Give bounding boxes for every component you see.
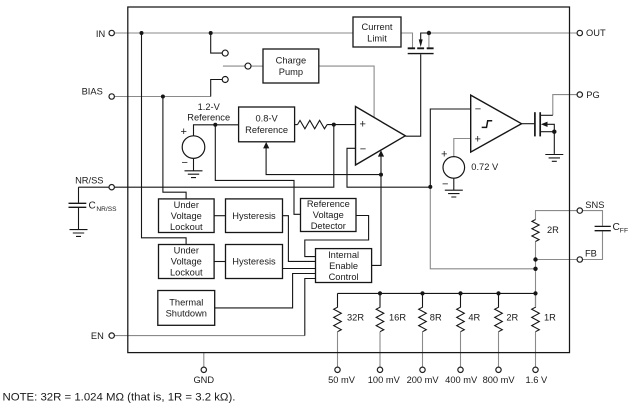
svg-text:IN: IN [96, 29, 105, 39]
svg-text:Lockout: Lockout [170, 222, 203, 232]
svg-text:+: + [475, 134, 481, 146]
svg-text:C: C [613, 222, 620, 233]
svg-text:Reference: Reference [245, 125, 288, 135]
svg-text:Voltage: Voltage [171, 211, 202, 221]
svg-text:8R: 8R [430, 312, 442, 322]
svg-text:Voltage: Voltage [171, 257, 202, 267]
svg-text:NR/SS: NR/SS [75, 176, 103, 186]
svg-text:200 mV: 200 mV [407, 375, 440, 385]
svg-text:32R: 32R [347, 312, 364, 322]
svg-text:Current: Current [361, 22, 392, 32]
svg-text:Shutdown: Shutdown [166, 309, 207, 319]
svg-text:BIAS: BIAS [82, 86, 103, 96]
svg-text:OUT: OUT [586, 28, 606, 38]
svg-text:GND: GND [193, 375, 214, 385]
svg-text:Pump: Pump [279, 67, 303, 77]
svg-text:16R: 16R [389, 312, 406, 322]
svg-text:Control: Control [329, 272, 359, 282]
svg-text:Hysteresis: Hysteresis [232, 257, 276, 267]
svg-text:50 mV: 50 mV [328, 375, 356, 385]
svg-text:Detector: Detector [311, 221, 346, 231]
svg-text:−: − [360, 144, 366, 156]
svg-text:−: − [475, 104, 481, 116]
svg-text:EN: EN [91, 331, 104, 341]
svg-text:+: + [181, 126, 187, 138]
svg-text:PG: PG [586, 90, 599, 100]
svg-text:0.72 V: 0.72 V [471, 162, 499, 172]
svg-text:−: − [182, 157, 188, 169]
svg-text:+: + [360, 119, 366, 131]
svg-text:Under: Under [174, 200, 199, 210]
svg-text:−: − [442, 179, 448, 191]
svg-text:Thermal: Thermal [169, 298, 203, 308]
svg-text:Reference: Reference [187, 112, 230, 122]
svg-text:NR/SS: NR/SS [96, 206, 117, 213]
svg-text:C: C [89, 200, 96, 211]
svg-text:Under: Under [174, 246, 199, 256]
svg-text:SNS: SNS [585, 200, 604, 210]
svg-text:Enable: Enable [329, 261, 358, 271]
svg-text:400 mV: 400 mV [445, 375, 478, 385]
svg-text:100 mV: 100 mV [368, 375, 401, 385]
svg-text:1R: 1R [544, 312, 556, 322]
svg-text:Voltage: Voltage [313, 210, 344, 220]
svg-text:4R: 4R [468, 312, 480, 322]
svg-text:0.8-V: 0.8-V [255, 114, 278, 124]
svg-text:Hysteresis: Hysteresis [232, 211, 276, 221]
svg-text:Reference: Reference [307, 199, 350, 209]
svg-text:Charge: Charge [276, 56, 307, 66]
svg-text:1.6 V: 1.6 V [526, 375, 549, 385]
svg-text:Internal: Internal [328, 250, 359, 260]
svg-text:2R: 2R [506, 312, 518, 322]
svg-text:FF: FF [620, 227, 628, 234]
svg-text:+: + [441, 148, 447, 160]
svg-text:Limit: Limit [367, 34, 387, 44]
svg-text:NOTE: 32R = 1.024 MΩ (that is,: NOTE: 32R = 1.024 MΩ (that is, 1R = 3.2 … [3, 392, 236, 404]
svg-text:1.2-V: 1.2-V [198, 102, 221, 112]
svg-text:FB: FB [585, 249, 597, 259]
svg-text:2R: 2R [547, 225, 559, 235]
svg-text:Lockout: Lockout [170, 268, 203, 278]
svg-text:800 mV: 800 mV [483, 375, 516, 385]
